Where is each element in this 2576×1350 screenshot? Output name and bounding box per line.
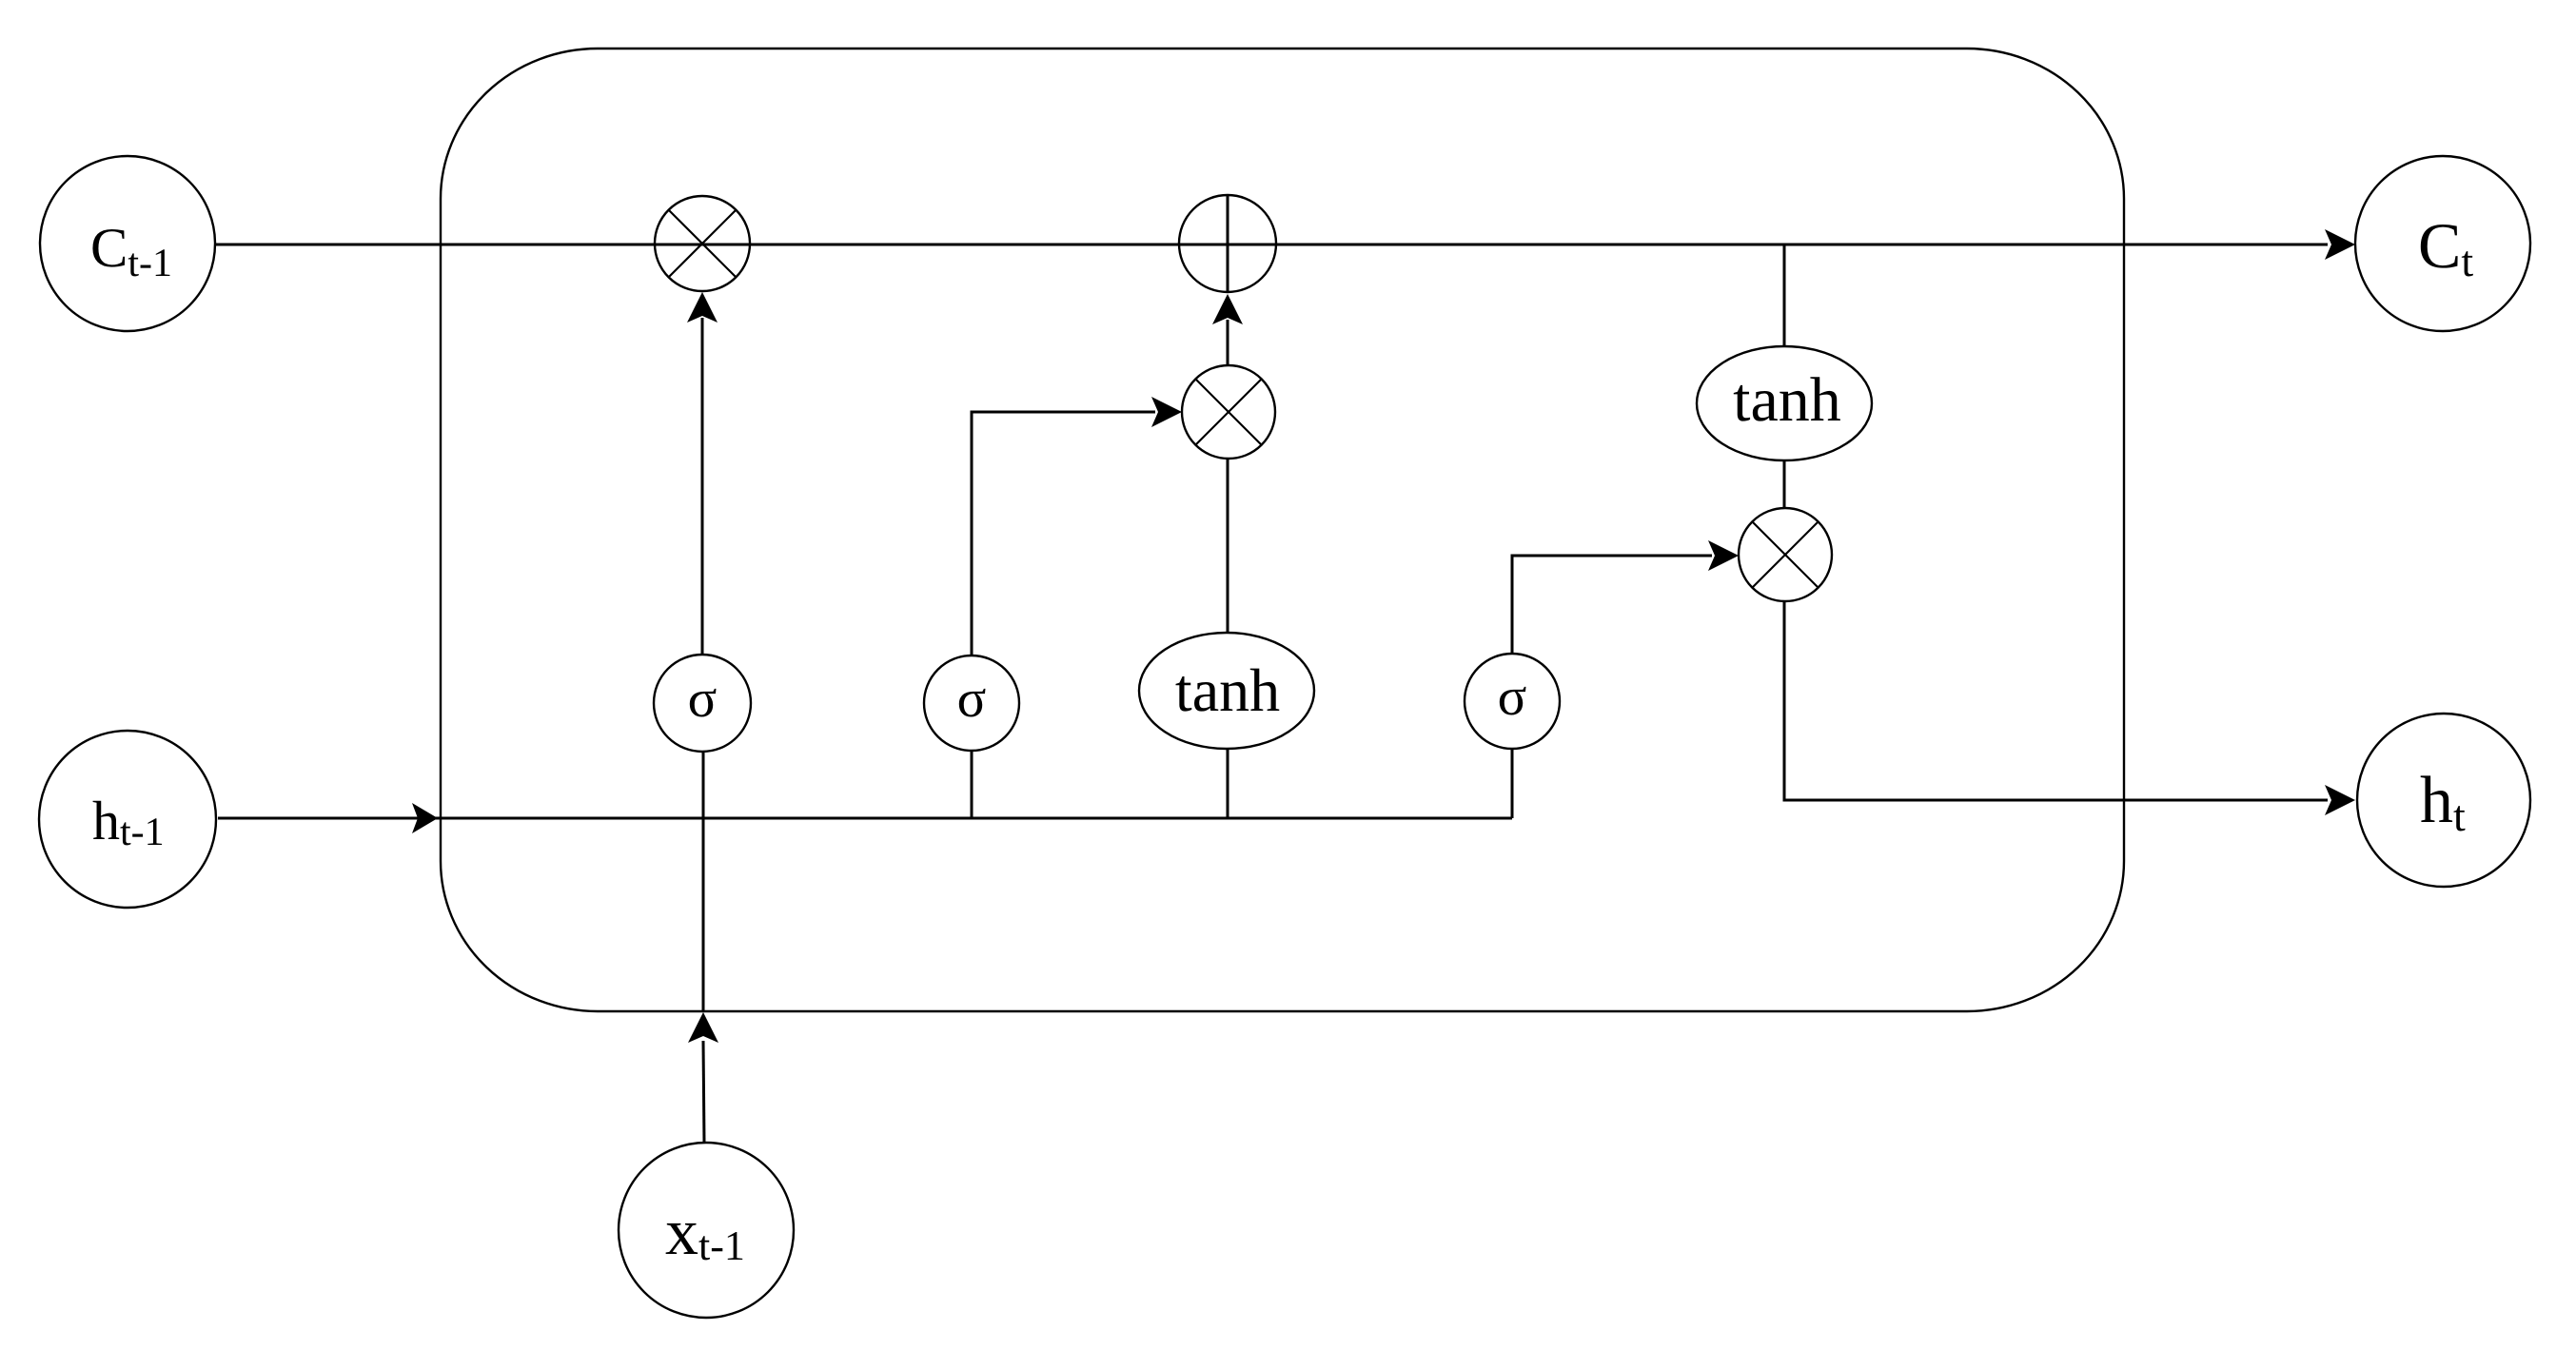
wire x_{t-1} up to box bottom [703, 1041, 704, 1143]
wire tanh2 bottom to multiply3 top [1783, 460, 1786, 508]
svg-text:σ: σ [688, 669, 718, 729]
multiply gate 3 [1739, 508, 1832, 601]
tanh gate 1 [1139, 633, 1314, 749]
arrowhead at box bottom edge [688, 1012, 718, 1043]
wire tanh1 to h-line [1227, 749, 1229, 818]
sigma gate 1 [654, 655, 751, 752]
arrowhead into h_t [2325, 785, 2355, 815]
node h_t [2357, 714, 2530, 887]
wire sigma2 top to multiply2 [972, 412, 1155, 655]
wire sigma2 to h-line [971, 751, 973, 818]
svg-text:σ: σ [1498, 667, 1527, 727]
arrowhead into multiply3 [1708, 540, 1739, 571]
svg-text:tanh: tanh [1733, 365, 1841, 435]
wire sigma3 top to multiply3 [1512, 556, 1712, 654]
multiply gate 2 [1182, 365, 1275, 459]
wire C-line junction down to tanh2 [1783, 245, 1786, 346]
arrowhead into C_t [2325, 229, 2355, 260]
sigma gate 3 [1465, 654, 1560, 749]
svg-text:tanh: tanh [1175, 656, 1280, 724]
plus gate [1179, 195, 1276, 292]
wire multiply2 top to plus [1227, 320, 1229, 365]
wire sigma3 to h-line end [1511, 749, 1514, 818]
node h_{t-1} [39, 731, 216, 908]
node x_{t-1} [619, 1143, 794, 1318]
tanh gate 2 [1697, 346, 1872, 460]
wire sigma1 top to multiply1 [701, 318, 704, 655]
wire C-line from C_{t-1} to C_t [215, 244, 2328, 246]
sigma gate 2 [924, 655, 1019, 751]
arrowhead into multiply2 [1151, 397, 1182, 427]
arrowhead on h-line at box left edge [412, 803, 438, 833]
LSTM cell outer box [441, 49, 2124, 1011]
arrowhead into plus [1212, 294, 1243, 324]
node C_t [2355, 156, 2530, 331]
arrowhead into multiply1 [687, 292, 718, 323]
svg-text:σ: σ [957, 669, 987, 729]
wire h-line from h_{t-1} to x=1589 [218, 817, 1512, 820]
wire box bottom to sigma1 bottom [702, 751, 705, 1012]
wire tanh1 top to multiply2 bottom [1227, 459, 1229, 633]
multiply gate 1 [655, 196, 750, 291]
node C_{t-1} [40, 156, 215, 331]
wire multiply3 bottom to h_t [1784, 601, 2328, 800]
